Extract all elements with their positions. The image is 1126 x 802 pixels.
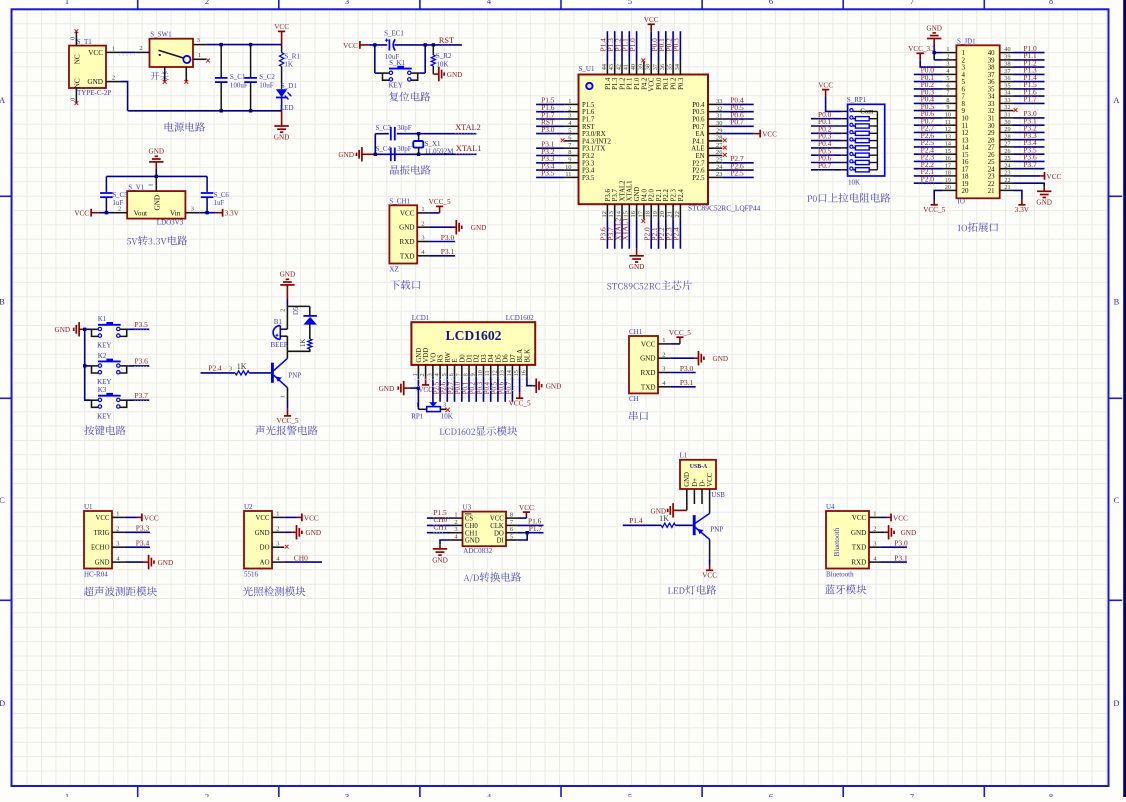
wire C5 drop — [105, 176, 107, 192]
net label P1.6 (JD1) — [1022, 87, 1037, 97]
svg-text:S_JD1: S_JD1 — [957, 37, 976, 45]
svg-text:34: 34 — [988, 94, 995, 101]
module label 5V转3.3V电路 — [127, 236, 187, 246]
wire K1 right drop — [424, 45, 426, 73]
junction reset left — [373, 43, 376, 46]
wire JD1 P3.4 — [1014, 146, 1045, 148]
svg-text:P0.0: P0.0 — [656, 77, 663, 90]
svg-text:P0.7: P0.7 — [506, 381, 513, 394]
wire U1 pin 1 — [536, 103, 564, 105]
junction crystal tap top — [417, 132, 420, 135]
svg-text:3: 3 — [426, 373, 433, 376]
net label P1.4 — [629, 516, 644, 526]
wire light GND — [284, 531, 291, 533]
module label 串口 — [629, 411, 648, 421]
U2 pin 2 (GND) — [255, 526, 284, 537]
U1 left pin 1 (P1.5) — [564, 98, 595, 109]
svg-text:E: E — [452, 358, 459, 362]
pin number 2 (buzzer) — [279, 309, 286, 312]
svg-text:31: 31 — [1004, 112, 1010, 119]
svg-text:VCC: VCC — [519, 504, 534, 512]
net label P1.5 (adc) — [433, 508, 448, 518]
svg-text:VCC: VCC — [702, 572, 717, 580]
junction vin cap — [205, 211, 208, 214]
connector L1 USB-A body — [680, 452, 717, 489]
U1 top pin 38 (VCC) — [645, 62, 656, 92]
net label P2.5 (JD1) — [919, 138, 935, 148]
svg-text:LCD1: LCD1 — [412, 314, 430, 322]
power VCC_5 below alarm — [277, 409, 299, 425]
U1 right pin 24 (P2.6) — [692, 164, 723, 175]
svg-text:33: 33 — [716, 98, 722, 105]
power GND alarm top — [280, 271, 296, 299]
connector S_JD1 body — [956, 37, 999, 205]
svg-text:2: 2 — [873, 526, 876, 533]
no-connect x JD1 pin 32 — [1014, 108, 1018, 112]
SW1 pin 1 — [193, 52, 206, 59]
svg-text:D1: D1 — [467, 354, 474, 362]
no-connect x U1 pin 27 — [723, 146, 727, 150]
svg-text:LDO3V3: LDO3V3 — [157, 219, 184, 227]
wire alarm bottom node — [287, 349, 309, 351]
wire U1 pin 2 — [536, 111, 564, 113]
junction ldo top — [155, 175, 158, 178]
svg-text:3: 3 — [568, 113, 571, 120]
svg-text:VCC: VCC — [641, 340, 656, 348]
svg-text:25: 25 — [716, 157, 722, 164]
svg-text:P0.7: P0.7 — [692, 124, 705, 131]
svg-text:29: 29 — [988, 130, 995, 137]
LCD pin names — [416, 348, 532, 363]
wire K1 left link — [375, 72, 381, 74]
net label P0.2 (LCD) — [470, 381, 477, 394]
U1 bottom pin 14 (XTAL2) — [615, 180, 626, 220]
net label RST (U1 left) — [541, 118, 555, 128]
svg-text:VCC: VCC — [343, 42, 358, 50]
svg-text:CH1: CH1 — [465, 530, 478, 537]
wire U1 bottom pin 19 — [658, 219, 660, 248]
svg-text:24: 24 — [1004, 162, 1010, 169]
pin number 3 (alarm base) — [229, 366, 232, 373]
resistor network S_RP1 body — [847, 96, 885, 186]
svg-text:RP1: RP1 — [411, 412, 424, 420]
U1 right pin 25 (P2.7) — [692, 157, 722, 168]
net label P0.7 (RP1) — [818, 161, 833, 171]
svg-text:GND: GND — [255, 530, 270, 537]
svg-text:P0.6: P0.6 — [499, 381, 506, 394]
svg-text:VCC_5: VCC_5 — [277, 417, 299, 425]
svg-text:VCC: VCC — [644, 16, 659, 24]
power VCC top of U1 — [644, 16, 659, 32]
svg-text:CLK: CLK — [490, 523, 504, 530]
compile marks LCD rows — [414, 379, 532, 390]
wire K3 out — [128, 399, 149, 401]
wire U1 pin 31 — [722, 118, 753, 120]
power GND right of us — [143, 555, 173, 569]
svg-text:1: 1 — [276, 511, 279, 518]
net label P3.3 (JD1) — [1022, 131, 1037, 141]
wire RP1 P0.3 — [811, 140, 841, 142]
svg-text:VCC_5: VCC_5 — [669, 329, 691, 337]
net label P1.7 (JD1) — [1022, 95, 1037, 105]
net label P3.2 (U1 left) — [539, 147, 555, 157]
svg-text:1: 1 — [198, 52, 201, 59]
svg-text:7: 7 — [455, 373, 462, 376]
wire JD1 P2.2 — [914, 168, 943, 170]
net label P3.1 (XZ) — [441, 247, 456, 257]
svg-text:GND: GND — [338, 151, 354, 159]
L1 pin D+ stub — [693, 489, 695, 504]
svg-text:3: 3 — [345, 791, 349, 797]
svg-text:8: 8 — [1049, 791, 1053, 797]
svg-text:36: 36 — [988, 79, 995, 86]
net label P2.7 (U1 right) — [729, 154, 744, 164]
svg-text:P2.5: P2.5 — [692, 175, 705, 182]
ADC U3 ADC0832 body — [463, 504, 507, 555]
svg-text:P1.2: P1.2 — [619, 77, 626, 90]
net label CH1 (adc) — [433, 523, 447, 533]
wire XZ VCC — [429, 212, 439, 214]
svg-text:KEY: KEY — [389, 82, 403, 90]
svg-text:25: 25 — [1004, 155, 1010, 162]
crystal S_X1 11.0592M — [413, 134, 454, 156]
svg-text:3.3V: 3.3V — [225, 210, 240, 218]
wire bt TXD — [881, 546, 907, 548]
resistor S_R2 10K — [431, 45, 452, 74]
svg-text:GND: GND — [274, 133, 290, 141]
svg-text:GND: GND — [399, 224, 414, 232]
svg-text:Bluetooth: Bluetooth — [832, 527, 841, 556]
module U2 5516 body — [244, 503, 272, 579]
wire alarm gnd drop — [286, 299, 288, 306]
wire U1 bottom pin 18 — [650, 219, 652, 248]
svg-text:RST: RST — [439, 36, 454, 45]
svg-text:P3.5: P3.5 — [582, 175, 595, 182]
svg-text:12: 12 — [945, 126, 951, 133]
wire JD1 pin22 — [1014, 183, 1045, 186]
junction C2 bottom — [249, 109, 252, 112]
svg-text:32: 32 — [988, 108, 995, 115]
svg-text:5: 5 — [628, 0, 632, 6]
svg-text:14: 14 — [506, 370, 513, 376]
svg-text:24: 24 — [988, 166, 995, 173]
U4 pin 4 (RXD) — [851, 555, 881, 566]
wire us VCC — [124, 516, 137, 518]
wire T1 GND down — [120, 82, 127, 111]
wire VCC rail top — [206, 44, 281, 46]
no-connect x pot pin3 — [446, 408, 450, 412]
svg-text:1: 1 — [662, 337, 665, 344]
net label P2.3 (JD1) — [919, 153, 935, 163]
svg-text:19: 19 — [945, 177, 951, 184]
net label P0.2 (U1 top) — [664, 38, 673, 52]
svg-text:21: 21 — [988, 188, 995, 195]
wire K1 left drop — [374, 45, 376, 73]
net label P1.3 (U1 top) — [606, 38, 615, 52]
net label P0.5 (RP1) — [818, 146, 833, 156]
svg-text:15: 15 — [623, 211, 630, 217]
svg-text:GND: GND — [379, 385, 395, 393]
wire light AO — [284, 561, 322, 563]
resistor 1K (alarm) — [300, 339, 312, 349]
svg-text:40: 40 — [988, 50, 995, 57]
net label P0.4 (U1 right) — [729, 96, 744, 106]
net label P0.5 (U1 right) — [729, 103, 744, 113]
svg-text:KEY: KEY — [97, 342, 111, 350]
wire JD1 P3.5 — [1014, 153, 1045, 155]
no-connect x U1 pin 17 — [641, 219, 645, 223]
junction C2 top — [249, 43, 252, 46]
wire crystal top right — [397, 133, 477, 135]
svg-text:P0.0: P0.0 — [455, 381, 462, 394]
net label P0.1 (JD1) — [919, 73, 935, 83]
XZ pin 4 (TXD) — [400, 249, 429, 260]
svg-text:RST: RST — [582, 124, 595, 131]
wire U1 EA to VCC — [722, 133, 753, 135]
wire crystal top left — [375, 133, 389, 135]
LCD1602 module body — [411, 314, 535, 365]
svg-text:3: 3 — [276, 540, 279, 547]
svg-text:P4.3/INT2: P4.3/INT2 — [582, 138, 611, 145]
wire bt VCC — [881, 516, 887, 518]
svg-text:RXD: RXD — [400, 238, 415, 246]
svg-text:23: 23 — [988, 174, 995, 181]
svg-text:P1.7: P1.7 — [529, 524, 543, 533]
net label P2.0 (JD1) — [919, 174, 935, 184]
svg-text:S_C3: S_C3 — [376, 124, 392, 132]
SW1 bottom pin 5 — [185, 67, 187, 81]
wire U1 pin 8 — [536, 155, 564, 157]
svg-text:P0.4: P0.4 — [484, 381, 491, 394]
svg-text:C: C — [1114, 495, 1120, 505]
svg-text:P0.4: P0.4 — [692, 102, 705, 109]
U1 bottom pin 13 (P3.7) — [608, 189, 619, 220]
svg-text:VCC: VCC — [74, 210, 89, 218]
wire led base — [623, 524, 661, 526]
net label P3.2 (JD1) — [1022, 124, 1037, 134]
svg-text:P3.0: P3.0 — [441, 233, 455, 242]
wire JD1 P1.2 — [1014, 66, 1045, 68]
svg-text:VCC: VCC — [304, 514, 319, 522]
svg-text:42: 42 — [615, 64, 622, 70]
L1 pin names — [684, 472, 714, 487]
net label P1.7 (adc) — [529, 524, 544, 534]
svg-text:37: 37 — [988, 72, 995, 79]
svg-text:18: 18 — [945, 170, 951, 177]
U1 right pin 29 (EA) — [695, 127, 722, 138]
svg-text:P1.0: P1.0 — [634, 77, 641, 90]
svg-text:28: 28 — [1004, 133, 1010, 140]
net label P1.7 (U1 left) — [539, 110, 555, 120]
junction JD1 pin1 — [933, 51, 936, 54]
svg-text:13: 13 — [608, 211, 615, 217]
svg-text:39: 39 — [637, 64, 644, 70]
svg-text:0: 0 — [70, 37, 77, 40]
wire U1 bottom pin 12 — [606, 219, 608, 248]
U1(us) pin 3 (ECHO) — [91, 540, 124, 551]
wire emitter down — [287, 388, 289, 401]
svg-text:P2.5: P2.5 — [434, 381, 441, 394]
net label P0.0 (LCD) — [455, 381, 462, 394]
junction crystal tap bottom — [417, 153, 420, 156]
wire JD1 P3.2 — [1014, 131, 1045, 133]
wire adc CH1 — [427, 532, 451, 534]
svg-text:35: 35 — [988, 87, 995, 94]
net label P2.4 — [208, 364, 223, 374]
net label P2.3 (U1 bottom) — [664, 227, 673, 241]
svg-text:14: 14 — [615, 210, 622, 217]
wire U1 pin 25 — [722, 162, 753, 164]
no-connect x U1 pin 39 — [641, 59, 645, 63]
svg-text:VCC: VCC — [490, 516, 504, 523]
key K3 — [90, 386, 128, 420]
U1 top pin 35 (P0.2) — [667, 62, 678, 90]
U1 left pin 2 (P1.6) — [564, 105, 595, 116]
svg-text:ALE: ALE — [691, 146, 704, 153]
wire light VCC — [284, 516, 297, 518]
wire LCD P0.7 — [511, 377, 513, 402]
svg-text:TXD: TXD — [852, 544, 867, 552]
power VCC port ldo — [74, 209, 98, 218]
net label P2.2 (U1 bottom) — [657, 227, 666, 241]
svg-text:22: 22 — [988, 181, 995, 188]
svg-text:1: 1 — [568, 98, 571, 105]
wire alarm base — [201, 372, 236, 374]
U1 right pin 27 (ALE) — [691, 142, 723, 153]
svg-text:P0.7: P0.7 — [818, 161, 832, 170]
wire RP1 P0.4 — [811, 147, 841, 149]
svg-text:A: A — [1113, 95, 1120, 105]
wire LCD P0.2 — [475, 377, 477, 402]
no-connect x U1 pin 26 — [723, 153, 727, 157]
svg-text:S_RP1: S_RP1 — [847, 96, 867, 104]
L1 pin VCC stub — [709, 489, 711, 513]
wire CH1 GND — [670, 357, 695, 359]
net label P0.3 (LCD) — [477, 381, 484, 394]
wire JD1 P0.0 — [914, 73, 943, 75]
svg-text:1: 1 — [873, 511, 876, 518]
U1 top pin 43 (P1.3) — [608, 62, 619, 90]
svg-text:P4.0: P4.0 — [641, 189, 648, 202]
svg-text:XTAL1: XTAL1 — [627, 180, 634, 201]
U1(us) pin 1 (VCC) — [96, 511, 125, 522]
module label P0口上拉电阻电路 — [807, 193, 890, 203]
buzzer B1 BEEP — [271, 318, 288, 349]
svg-text:12: 12 — [491, 370, 498, 376]
svg-text:11: 11 — [945, 119, 951, 126]
U1 left pin 5 (P3.0/RX) — [564, 127, 605, 138]
net label P1.5 (JD1) — [1022, 80, 1037, 90]
svg-text:2: 2 — [419, 373, 426, 376]
power GND below U1 — [629, 249, 645, 272]
svg-text:P2.3: P2.3 — [671, 189, 678, 202]
wire RP1 P0.7 — [811, 169, 841, 171]
svg-text:33: 33 — [1004, 97, 1010, 104]
wire U1 pin 9 — [536, 162, 564, 164]
svg-text:GND: GND — [546, 383, 562, 391]
svg-text:16: 16 — [945, 155, 951, 162]
svg-text:3: 3 — [191, 205, 194, 212]
power VCC_5 above XZ — [429, 198, 451, 213]
capacitor S_C3 30pF — [376, 124, 412, 140]
sheet outer edge — [1123, 0, 1126, 797]
svg-text:TXD: TXD — [641, 383, 656, 391]
svg-text:XTAL1: XTAL1 — [456, 144, 482, 153]
svg-text:D+: D+ — [692, 478, 699, 487]
wire LCD pin3 to pot — [432, 377, 434, 403]
U3 right pin 7 (CLK) — [490, 519, 517, 530]
svg-text:19: 19 — [652, 211, 659, 217]
U1 right pin 31 (P0.6) — [692, 113, 722, 124]
svg-text:36: 36 — [1004, 75, 1010, 82]
XZ pin 1 (VCC) — [400, 206, 429, 217]
svg-text:P3.1: P3.1 — [894, 553, 908, 562]
wire U1 top pin 37 — [658, 31, 660, 61]
junction keys K1 — [83, 328, 86, 331]
wire JD1 P1.3 — [1014, 73, 1045, 75]
svg-text:1: 1 — [279, 395, 286, 398]
svg-text:1: 1 — [412, 373, 419, 376]
wire JD1 P0.5 — [914, 110, 943, 112]
svg-text:B: B — [0, 297, 5, 307]
net label USB — [711, 491, 725, 499]
module label LED灯电路 — [668, 585, 716, 595]
capacitor S_C4 30pF — [376, 145, 412, 161]
wire U1 pin 11 — [536, 176, 564, 178]
wire JD1 pin1 — [934, 52, 942, 54]
wire JD1 P1.1 — [1014, 59, 1045, 61]
svg-text:GND: GND — [153, 195, 161, 211]
wire U1 bottom pin 22 — [679, 219, 681, 248]
U1 bottom pin 12 (P3.6) — [601, 189, 612, 220]
svg-text:8: 8 — [463, 373, 470, 376]
U1 top pin 41 (P1.1) — [623, 62, 634, 90]
svg-text:GND: GND — [926, 24, 942, 32]
net label P0.2 (JD1) — [919, 80, 935, 90]
svg-text:41: 41 — [623, 64, 630, 70]
wire XZ TXD — [429, 255, 455, 257]
svg-text:23: 23 — [716, 171, 722, 178]
wire base to pnp — [675, 524, 692, 526]
wire JD1 P2.0 — [914, 182, 943, 184]
wire LCD P0.1 — [468, 377, 470, 402]
net label P1.4 (U1 top) — [599, 38, 608, 52]
svg-text:P2.6: P2.6 — [441, 381, 448, 394]
transistor PNP (led) — [694, 513, 723, 539]
transistor PNP (alarm) — [272, 358, 301, 387]
svg-text:2: 2 — [454, 519, 457, 526]
svg-text:37: 37 — [1004, 68, 1010, 75]
svg-text:P1.4: P1.4 — [605, 77, 612, 90]
power VCC top — [274, 23, 289, 44]
wire K3 in — [85, 399, 90, 401]
svg-text:34: 34 — [1004, 90, 1010, 97]
net label P0.5 (LCD) — [491, 381, 498, 394]
svg-text:P3.0: P3.0 — [541, 125, 555, 134]
svg-text:XTAL1: XTAL1 — [621, 217, 630, 240]
svg-text:30: 30 — [1004, 119, 1010, 126]
svg-text:P3.5: P3.5 — [541, 169, 555, 178]
svg-text:3: 3 — [197, 37, 200, 44]
wire JD1 P0.3 — [914, 95, 943, 97]
net label P1.6 (adc) — [528, 517, 543, 527]
svg-text:VCC_5: VCC_5 — [429, 198, 451, 206]
wire JD1 gnd drop — [933, 45, 935, 60]
net label P2.5 (LCD) — [434, 381, 441, 394]
svg-text:BLA: BLA — [517, 349, 524, 363]
svg-text:P1.3: P1.3 — [612, 77, 619, 90]
junction C1 top — [220, 43, 223, 46]
